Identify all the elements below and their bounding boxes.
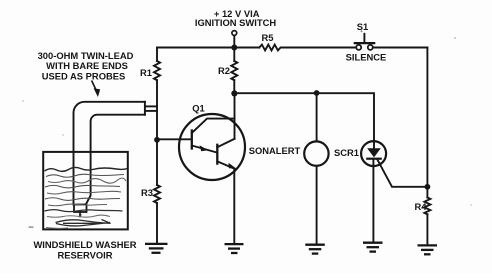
svg-text:SONALERT: SONALERT (249, 145, 301, 156)
svg-text:R4: R4 (415, 201, 428, 212)
svg-text:SILENCE: SILENCE (346, 52, 387, 63)
svg-text:SCR1: SCR1 (334, 147, 359, 158)
svg-text:USED AS PROBES: USED AS PROBES (42, 70, 126, 81)
svg-text:IGNITION SWITCH: IGNITION SWITCH (195, 17, 276, 28)
svg-text:WINDSHIELD WASHER: WINDSHIELD WASHER (33, 239, 136, 250)
svg-text:Q1: Q1 (192, 102, 205, 113)
svg-text:RESERVOIR: RESERVOIR (57, 250, 112, 261)
svg-text:R1: R1 (140, 67, 152, 78)
svg-text:R2: R2 (218, 65, 230, 76)
svg-text:R5: R5 (262, 32, 274, 43)
svg-text:S1: S1 (357, 21, 368, 32)
svg-text:R3: R3 (141, 187, 153, 198)
